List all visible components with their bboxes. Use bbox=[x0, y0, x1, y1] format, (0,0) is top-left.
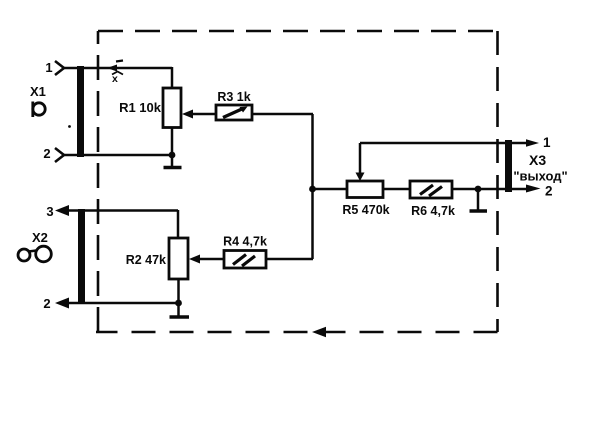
svg-text:"выход": "выход" bbox=[513, 169, 567, 184]
wire: corner down to R2 top bbox=[177, 210, 180, 238]
R2 wiper arrow (from R4) bbox=[189, 255, 200, 264]
wire: R1 bottom to junction bbox=[171, 128, 174, 156]
arrow on bottom border (pointing left) bbox=[312, 327, 326, 337]
wire: wiper to R3 left bbox=[192, 113, 216, 116]
junction dot under R2 bbox=[175, 300, 182, 307]
connector X1 pin 2 chevron bbox=[55, 148, 64, 162]
wire: X2 pin 2 to ground junction bbox=[66, 302, 179, 305]
R1 wiper arrow (from R3) bbox=[182, 110, 193, 119]
wire: corner down to R1 top bbox=[171, 67, 174, 88]
R3 adjustment arrow inside body bbox=[223, 109, 243, 118]
svg-text:2: 2 bbox=[43, 296, 50, 311]
correction mark: small left arrow on pin1 wire bbox=[107, 65, 117, 72]
trimmer R3 body bbox=[216, 105, 252, 120]
wire: R4 right to trunk bbox=[266, 258, 313, 261]
wire: X3 pin 1 stub bbox=[510, 142, 529, 145]
connector X2 plug symbol (two circles) bbox=[18, 249, 30, 261]
connector X2 pin 3 arrow (pointing left) bbox=[55, 205, 69, 216]
svg-text:R4 4,7k: R4 4,7k bbox=[223, 235, 267, 249]
junction dot under R1 bbox=[169, 152, 176, 159]
junction dot before ground bbox=[475, 186, 482, 193]
potentiometer R2 body bbox=[169, 238, 188, 279]
wire: junction to R5 left bbox=[313, 188, 348, 191]
connector X1 plug symbol (circle) bbox=[33, 103, 45, 115]
wire: X3 pin 2 stub bbox=[510, 188, 531, 191]
connector X1 pin 1 chevron bbox=[55, 61, 64, 75]
svg-text:R1 10k: R1 10k bbox=[119, 100, 162, 115]
potentiometer R5 body bbox=[347, 181, 383, 198]
svg-text:1: 1 bbox=[543, 135, 551, 150]
svg-text:X1: X1 bbox=[30, 84, 46, 99]
wire: X1 pin 2 to ground junction bbox=[63, 154, 172, 157]
wire: R2 bottom to junction bbox=[177, 279, 180, 303]
connector X1 cable bar bbox=[77, 66, 84, 157]
dashed enclosure border, right side bbox=[496, 31, 499, 332]
ground at output bbox=[477, 189, 480, 211]
svg-text:X2: X2 bbox=[32, 230, 48, 245]
trimmer R6 body bbox=[410, 181, 452, 198]
svg-text:1: 1 bbox=[45, 60, 52, 75]
correction mark: dash above wire bbox=[116, 61, 123, 62]
wire: wiper to R4 left bbox=[199, 258, 224, 261]
ground under R2 bbox=[177, 303, 180, 317]
svg-text:R6 4,7k: R6 4,7k bbox=[411, 204, 455, 218]
svg-text:R5 470k: R5 470k bbox=[342, 203, 389, 217]
R6 preset marks inside body bbox=[420, 185, 433, 195]
svg-text:3: 3 bbox=[46, 204, 53, 219]
connector X2 pin 2 arrow (pointing left) bbox=[55, 298, 69, 309]
connector X3 pin 1 arrow (pointing right) bbox=[526, 139, 539, 147]
svg-text:R2 47k: R2 47k bbox=[126, 253, 166, 267]
connector X2 cable bar bbox=[78, 209, 85, 304]
dashed enclosure border, top side bbox=[98, 30, 498, 33]
speck dot bbox=[68, 125, 71, 128]
potentiometer R1 body bbox=[163, 88, 181, 128]
wire: X2 pin 3 to R2 top corner bbox=[66, 209, 178, 212]
wire: vertical trunk from R3 wire down to R4 wire bbox=[311, 114, 314, 259]
svg-text:R3 1k: R3 1k bbox=[217, 90, 250, 104]
connector X3 cable bar bbox=[505, 140, 512, 192]
ground under R1 bbox=[171, 155, 174, 167]
wire: X1 pin 1 to R1 top corner bbox=[63, 67, 172, 70]
R4 preset marks inside body bbox=[233, 255, 246, 265]
svg-text:2: 2 bbox=[43, 146, 50, 161]
wire: R5 right to R6 left bbox=[383, 188, 410, 191]
dashed enclosure border, bottom side bbox=[96, 331, 498, 334]
dashed enclosure border, left side bbox=[97, 31, 100, 332]
connector X3 pin 2 arrow (pointing right) bbox=[526, 185, 541, 193]
wire: feedback from R5 wiper to X3 pin 1 bbox=[360, 142, 507, 145]
wire: R3 right to trunk corner bbox=[252, 113, 313, 116]
svg-text:2: 2 bbox=[545, 184, 553, 199]
trimmer R4 body bbox=[224, 251, 266, 269]
wire: R6 right to X3 bbox=[452, 188, 505, 191]
R5 wiper arrow (pointing down into body) bbox=[359, 143, 362, 173]
svg-text:X3: X3 bbox=[529, 152, 546, 168]
junction dot on trunk bbox=[309, 186, 316, 193]
